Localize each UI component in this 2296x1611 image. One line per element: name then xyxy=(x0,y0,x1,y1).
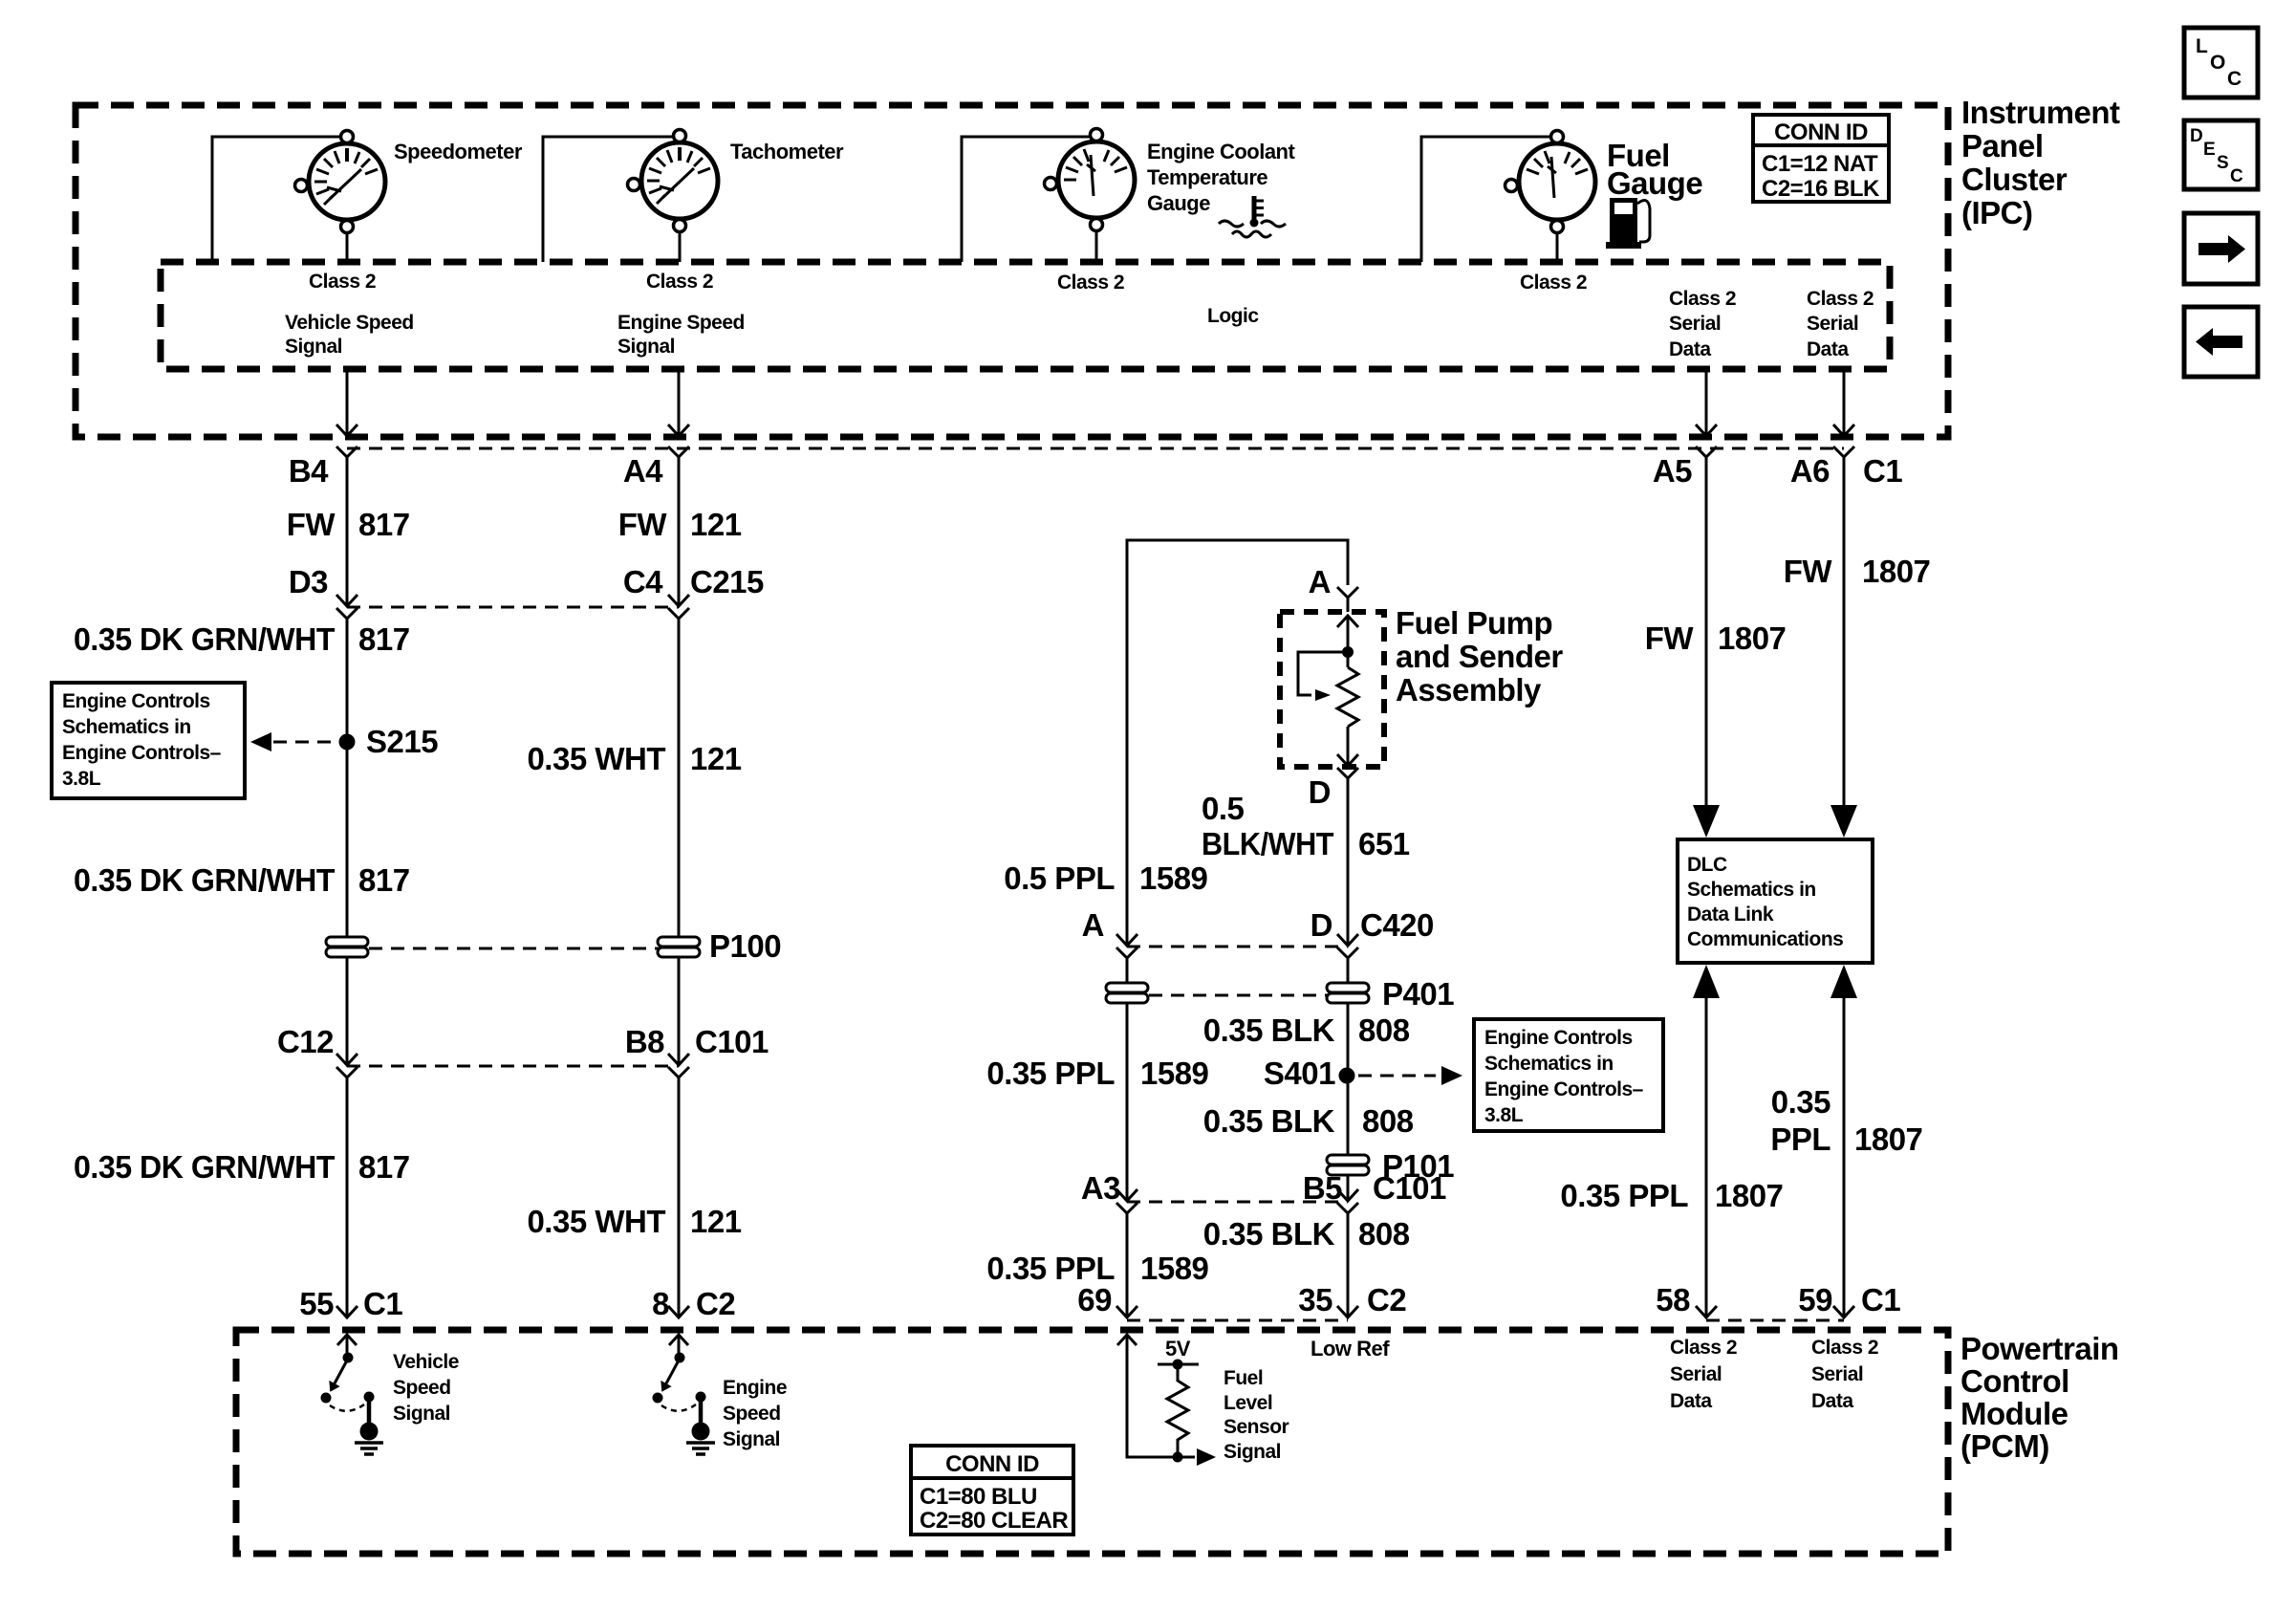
pin labels D C420 (W4) xyxy=(1310,907,1434,943)
arrow up inside PCM (pin 8) xyxy=(669,1335,688,1357)
svg-text:Engine Speed: Engine Speed xyxy=(617,312,745,334)
svg-text:A: A xyxy=(1309,564,1331,599)
svg-text:C2: C2 xyxy=(696,1286,735,1321)
arrow into C101 (W4) xyxy=(1337,1189,1358,1201)
nav icon DESC box xyxy=(2184,120,2258,189)
svg-text:8: 8 xyxy=(652,1286,669,1321)
svg-text:69: 69 xyxy=(1077,1282,1112,1317)
wire coolant gauge bottom stub xyxy=(1095,218,1098,262)
svg-text:and Sender: and Sender xyxy=(1396,639,1563,674)
inline connector P100 dashed link xyxy=(347,947,679,950)
svg-text:121: 121 xyxy=(690,507,742,542)
wire fuel gauge feed (top loop) xyxy=(1421,137,1557,262)
wire label FW 121 xyxy=(618,507,742,542)
connector pin Y (55 at PCM) xyxy=(336,1306,357,1317)
pin labels B8 C101 xyxy=(625,1024,769,1059)
pin labels A6 C1 xyxy=(1790,453,1903,489)
wire W1 segment C101 to PCM xyxy=(346,1078,349,1317)
ground (engine speed switch) xyxy=(686,1423,715,1455)
grommet P401 (W3) xyxy=(1106,983,1148,1003)
svg-text:121: 121 xyxy=(690,1204,742,1239)
grommet P101 (W4) xyxy=(1327,1155,1369,1175)
svg-text:D: D xyxy=(2190,126,2202,146)
svg-text:Vehicle Speed: Vehicle Speed xyxy=(285,312,414,334)
svg-text:Temperature: Temperature xyxy=(1147,165,1267,189)
connector pin Y (fuel sender D) xyxy=(1337,768,1358,778)
svg-text:C12: C12 xyxy=(277,1024,334,1059)
svg-text:0.35 DK GRN/WHT: 0.35 DK GRN/WHT xyxy=(74,621,335,657)
connector pin Y (A5) xyxy=(1696,446,1717,457)
connector C420 dashed line xyxy=(1127,946,1348,948)
arrow into C101 (W2) xyxy=(668,1054,689,1065)
svg-text:Communications: Communications xyxy=(1687,928,1843,950)
svg-text:0.35 BLK: 0.35 BLK xyxy=(1203,1103,1335,1139)
svg-text:Fuel: Fuel xyxy=(1224,1367,1263,1389)
arrow into C101 (W1) xyxy=(336,1054,357,1065)
connector pin Y (W3 at C101) xyxy=(1116,1203,1137,1213)
wire label 0.35 WHT 121 (2) xyxy=(527,1204,741,1239)
arrow into C420 (W3) xyxy=(1116,934,1137,946)
svg-text:817: 817 xyxy=(358,1149,410,1185)
Fuel Pump and Sender Assembly dashed box xyxy=(1280,612,1384,767)
net Engine Speed Signal (IPC) xyxy=(617,312,745,358)
connector pin Y (fuel sender A) xyxy=(1337,587,1358,598)
wire label 0.35 BLK 808 (3) xyxy=(1203,1216,1410,1252)
net Vehicle Speed Signal (PCM) xyxy=(393,1351,459,1425)
connector pin Y (W4 at C101) xyxy=(1337,1203,1358,1213)
svg-text:C: C xyxy=(2230,166,2243,186)
svg-text:FW: FW xyxy=(287,507,336,542)
net Class 2 Serial Data (IPC left) xyxy=(1669,288,1736,360)
svg-text:Class 2: Class 2 xyxy=(1670,1337,1737,1359)
svg-text:1589: 1589 xyxy=(1139,860,1208,896)
label Fuel Gauge xyxy=(1607,138,1702,201)
svg-text:Gauge: Gauge xyxy=(1147,191,1210,215)
inline connector P401 dashed link xyxy=(1127,994,1348,997)
arrow up from PCM into DLC (W5) xyxy=(1693,965,1720,998)
svg-text:Signal: Signal xyxy=(285,336,342,358)
svg-text:Signal: Signal xyxy=(1224,1441,1281,1463)
svg-text:C2=80 CLEAR: C2=80 CLEAR xyxy=(920,1508,1068,1534)
svg-text:0.35 BLK: 0.35 BLK xyxy=(1203,1216,1335,1252)
wire W5 segment A5 to DLC xyxy=(1705,457,1708,808)
svg-text:Class 2: Class 2 xyxy=(646,271,713,293)
svg-text:B4: B4 xyxy=(289,453,329,489)
svg-text:Level: Level xyxy=(1224,1392,1272,1414)
connector pin Y (W1 at C101) xyxy=(336,1067,357,1078)
net Fuel Level Sensor Signal xyxy=(1224,1367,1289,1463)
svg-text:Data: Data xyxy=(1807,338,1849,360)
wire stub into fuel sender box xyxy=(1347,598,1350,612)
svg-text:Class 2: Class 2 xyxy=(309,271,376,293)
grommet P401 (W4) xyxy=(1327,983,1369,1003)
connector C2 dashed line at PCM xyxy=(1127,1319,1348,1322)
resistor (PCM pull-up) xyxy=(1167,1364,1188,1457)
pin labels C4 C215 xyxy=(623,564,764,599)
connector pin Y (W3 at C420) xyxy=(1116,947,1137,958)
arrow up inside PCM (pin 69) xyxy=(1117,1335,1137,1345)
wire W2 segment C215 to C101 xyxy=(678,619,681,1063)
grommet P100 (W1) xyxy=(326,937,368,957)
wire label 0.35 DK GRN/WHT 817 (2) xyxy=(74,862,410,898)
svg-text:A5: A5 xyxy=(1653,453,1692,489)
arrow up from PCM into DLC (W6) xyxy=(1830,965,1857,998)
svg-text:Engine Controls–: Engine Controls– xyxy=(62,742,222,764)
svg-text:0.5: 0.5 xyxy=(1202,791,1245,826)
wire label 0.5 PPL 1589 xyxy=(1004,860,1207,896)
gauge Speedometer xyxy=(295,131,386,233)
net Vehicle Speed Signal (IPC) xyxy=(285,312,414,358)
svg-text:1589: 1589 xyxy=(1140,1251,1209,1286)
svg-text:5V: 5V xyxy=(1165,1337,1191,1361)
connector pin Y (W4 at C420) xyxy=(1337,947,1358,958)
svg-text:Assembly: Assembly xyxy=(1396,672,1542,708)
svg-text:Powertrain: Powertrain xyxy=(1960,1331,2119,1366)
svg-text:Data: Data xyxy=(1669,338,1711,360)
svg-text:C: C xyxy=(2227,68,2242,90)
junction dot (signal) xyxy=(1173,1452,1183,1463)
pin labels 8 C2 xyxy=(652,1286,735,1321)
svg-text:S215: S215 xyxy=(366,724,438,759)
PCM module name label xyxy=(1960,1331,2119,1464)
wire label 0.35 BLK 808 (1) xyxy=(1203,1012,1410,1048)
svg-text:Logic: Logic xyxy=(1207,305,1259,327)
svg-text:Engine: Engine xyxy=(723,1377,787,1399)
svg-text:817: 817 xyxy=(358,862,410,898)
wire W2 segment A4 to C215 xyxy=(678,457,681,605)
net Class 2 Serial Data (IPC right) xyxy=(1807,288,1874,360)
wire 5V feed inside PCM xyxy=(1127,1335,1195,1457)
svg-text:Panel: Panel xyxy=(1961,128,2044,163)
svg-text:Class 2: Class 2 xyxy=(1520,272,1587,294)
arrow into C420 (W4) xyxy=(1337,934,1358,946)
svg-text:Control: Control xyxy=(1960,1363,2069,1399)
svg-text:BLK/WHT: BLK/WHT xyxy=(1202,826,1333,861)
reference box DLC Schematics xyxy=(1678,839,1873,963)
svg-text:Engine Controls: Engine Controls xyxy=(62,690,210,712)
svg-text:0.35 PPL: 0.35 PPL xyxy=(986,1251,1115,1286)
svg-text:C1=12 NAT: C1=12 NAT xyxy=(1762,151,1878,177)
svg-text:D: D xyxy=(1309,774,1331,810)
splice S215 xyxy=(339,734,356,751)
wire sender internal bottom xyxy=(1347,727,1350,765)
svg-text:Module: Module xyxy=(1960,1396,2069,1431)
arrow into C215 (W1) xyxy=(336,595,357,606)
wire W1 segment B4 to C215 xyxy=(346,457,349,605)
wire W6 segment A6 to DLC xyxy=(1843,457,1846,808)
wire label 0.35 PPL 1807 (W5) xyxy=(1560,1178,1783,1213)
svg-text:Speed: Speed xyxy=(723,1403,781,1425)
svg-text:Engine Controls: Engine Controls xyxy=(1484,1027,1633,1049)
svg-text:C1: C1 xyxy=(1861,1282,1900,1317)
nav icon LOC box xyxy=(2184,28,2258,98)
gauge Engine Coolant Temperature xyxy=(1045,129,1136,231)
svg-text:B8: B8 xyxy=(625,1024,664,1059)
arrow into IPC edge (W2) xyxy=(668,425,689,436)
pin labels 55 C1 xyxy=(299,1286,402,1321)
svg-text:FW: FW xyxy=(618,507,668,542)
svg-text:0.35 WHT: 0.35 WHT xyxy=(527,1204,665,1239)
wire speedometer bottom stub xyxy=(346,220,349,262)
junction dot (sender) xyxy=(1342,646,1354,658)
junction dot (5V) xyxy=(1173,1360,1183,1370)
IPC module name label xyxy=(1961,95,2120,230)
wire W4 segment C101 to PCM xyxy=(1347,1213,1350,1317)
connector pin Y (W2 at C101) xyxy=(668,1067,689,1078)
wire label FW 1807 (W5) xyxy=(1645,620,1787,656)
connector pin Y (58 at PCM) xyxy=(1696,1306,1717,1317)
arrow into IPC edge (W5) xyxy=(1696,425,1717,436)
label Engine Coolant Temperature Gauge xyxy=(1147,140,1296,215)
svg-text:A: A xyxy=(1082,907,1104,943)
wire tachometer feed (top loop) xyxy=(543,137,680,262)
svg-text:Serial: Serial xyxy=(1669,313,1721,335)
connector pin Y (8 at PCM) xyxy=(668,1306,689,1317)
splice S401 xyxy=(1339,1068,1355,1084)
svg-text:C420: C420 xyxy=(1360,907,1434,943)
icon fuel pump xyxy=(1606,198,1650,249)
svg-text:C101: C101 xyxy=(695,1024,769,1059)
IPC inner logic dashed box xyxy=(161,262,1890,369)
reference box Engine Controls Schematics (left) xyxy=(52,683,245,798)
switch vehicle speed signal xyxy=(321,1353,375,1426)
svg-text:1807: 1807 xyxy=(1718,620,1786,656)
wire label 0.35 PPL 1589 (1) xyxy=(986,1056,1208,1091)
wire W3 segment C420 to C101 xyxy=(1126,958,1129,1199)
connector pin Y (W2 at C215) xyxy=(668,608,689,619)
svg-text:Engine Controls–: Engine Controls– xyxy=(1484,1078,1644,1100)
svg-text:(PCM): (PCM) xyxy=(1960,1428,2049,1464)
svg-text:Engine Coolant: Engine Coolant xyxy=(1147,140,1296,163)
svg-text:A4: A4 xyxy=(623,453,663,489)
label Fuel Pump and Sender Assembly xyxy=(1396,605,1563,708)
svg-text:D3: D3 xyxy=(289,564,328,599)
dashed reference arrow to S215 xyxy=(250,732,335,751)
arrow into IPC edge (W1) xyxy=(336,425,357,436)
svg-text:808: 808 xyxy=(1358,1012,1410,1048)
svg-text:C1: C1 xyxy=(363,1286,402,1321)
svg-text:Serial: Serial xyxy=(1670,1363,1722,1385)
net Class 2 Serial Data (PCM pin 58) xyxy=(1670,1337,1737,1412)
connector pin Y (A4) xyxy=(668,446,689,457)
svg-text:651: 651 xyxy=(1358,826,1410,861)
arrow up inside sender box xyxy=(1337,616,1358,627)
svg-text:P401: P401 xyxy=(1382,976,1454,1012)
grommet P100 (W2) xyxy=(658,937,700,957)
svg-text:P100: P100 xyxy=(709,928,781,964)
svg-text:1807: 1807 xyxy=(1862,554,1930,589)
svg-text:0.35 BLK: 0.35 BLK xyxy=(1203,1012,1335,1048)
arrow into DLC box (W6) xyxy=(1830,805,1857,838)
dashed reference arrow from S401 xyxy=(1358,1066,1462,1085)
svg-text:0.35 DK GRN/WHT: 0.35 DK GRN/WHT xyxy=(74,1149,335,1185)
wire label FW 1807 (W6) xyxy=(1784,554,1931,589)
svg-text:0.35 WHT: 0.35 WHT xyxy=(527,741,665,776)
arrow into C215 (W2) xyxy=(668,595,689,606)
svg-text:Instrument: Instrument xyxy=(1961,95,2120,130)
svg-text:Class 2: Class 2 xyxy=(1807,288,1874,310)
ground (vehicle speed switch) xyxy=(355,1423,383,1455)
net Engine Speed Signal (PCM) xyxy=(723,1377,787,1450)
svg-text:Data Link: Data Link xyxy=(1687,903,1774,925)
svg-text:B5: B5 xyxy=(1303,1170,1342,1206)
svg-text:35: 35 xyxy=(1298,1282,1332,1317)
connector C101 dashed line (left) xyxy=(347,1065,679,1068)
CONN ID table (PCM) xyxy=(911,1446,1073,1535)
svg-text:0.35 PPL: 0.35 PPL xyxy=(1560,1178,1688,1213)
svg-text:CONN ID: CONN ID xyxy=(945,1451,1039,1477)
svg-text:817: 817 xyxy=(358,621,410,657)
connector pin Y (A6) xyxy=(1833,446,1854,457)
CONN ID table (IPC) xyxy=(1753,115,1889,202)
svg-text:E: E xyxy=(2203,140,2215,160)
svg-text:Serial: Serial xyxy=(1807,313,1858,335)
svg-text:CONN ID: CONN ID xyxy=(1774,120,1868,145)
svg-text:C2=16 BLK: C2=16 BLK xyxy=(1762,176,1880,202)
svg-text:C4: C4 xyxy=(623,564,663,599)
svg-text:C2: C2 xyxy=(1367,1282,1406,1317)
svg-text:FW: FW xyxy=(1784,554,1833,589)
wire W3 segment C101 to PCM xyxy=(1126,1213,1129,1317)
svg-text:Vehicle: Vehicle xyxy=(393,1351,459,1373)
wire W6 segment DLC to PCM xyxy=(1843,994,1846,1317)
wire W1 segment C215 to C101 xyxy=(346,619,349,1063)
nav icon left arrow box xyxy=(2184,307,2258,377)
connector pin Y (35 at PCM) xyxy=(1337,1306,1358,1317)
arrow into C101 (W3) xyxy=(1116,1189,1137,1201)
gauge Fuel xyxy=(1505,131,1596,233)
svg-text:Signal: Signal xyxy=(723,1428,780,1450)
pin labels 35 C2 xyxy=(1298,1282,1406,1317)
wire label 0.5 BLK/WHT 651 xyxy=(1202,791,1410,861)
svg-text:Schematics in: Schematics in xyxy=(62,716,191,738)
svg-text:Schematics in: Schematics in xyxy=(1687,879,1816,901)
svg-text:3.8L: 3.8L xyxy=(1484,1104,1524,1126)
pin labels B5 C101 (W4) xyxy=(1303,1170,1446,1206)
wire W5 class 2 serial data IPC exit xyxy=(1705,369,1708,436)
svg-text:Tachometer: Tachometer xyxy=(730,140,844,163)
svg-text:Gauge: Gauge xyxy=(1607,165,1702,201)
connector C1 dashed line at PCM xyxy=(1706,1319,1844,1322)
svg-text:55: 55 xyxy=(299,1286,334,1321)
IPC harness connector dashed line (C1/C2 row) xyxy=(347,447,1844,450)
svg-text:C101: C101 xyxy=(1373,1170,1446,1206)
svg-text:0.35: 0.35 xyxy=(1771,1084,1830,1120)
connector pin Y (59 at PCM) xyxy=(1833,1306,1854,1317)
svg-text:C1=80 BLU: C1=80 BLU xyxy=(920,1484,1037,1510)
wire W4 segment sender to C420 xyxy=(1347,778,1350,945)
svg-text:(IPC): (IPC) xyxy=(1961,195,2033,230)
wire tachometer bottom stub xyxy=(679,219,682,262)
connector C101 dashed line (middle) xyxy=(1127,1201,1348,1204)
svg-text:A3: A3 xyxy=(1081,1170,1120,1206)
svg-text:808: 808 xyxy=(1362,1103,1414,1139)
svg-text:121: 121 xyxy=(690,741,742,776)
wire W6 class 2 serial data IPC exit xyxy=(1843,369,1846,436)
svg-text:1589: 1589 xyxy=(1140,1056,1209,1091)
connector pin Y (69 at PCM) xyxy=(1116,1306,1137,1317)
5V supply bar xyxy=(1158,1363,1199,1366)
svg-text:Cluster: Cluster xyxy=(1961,162,2068,197)
svg-text:Signal: Signal xyxy=(617,336,675,358)
svg-text:Speed: Speed xyxy=(393,1377,451,1399)
svg-text:S401: S401 xyxy=(1264,1056,1335,1091)
wire W2 engine speed signal IPC exit xyxy=(678,369,681,436)
wire W3 top jog (PPL feed to fuel sender) xyxy=(1127,540,1348,945)
wire W4 segment C420 to C101 xyxy=(1347,958,1350,1199)
svg-text:Sensor: Sensor xyxy=(1224,1416,1289,1438)
svg-text:PPL: PPL xyxy=(1770,1121,1830,1157)
wire label 0.35 DK GRN/WHT 817 (1) xyxy=(74,621,410,657)
wire label 0.35 PPL 1807 (W6 two-line) xyxy=(1770,1084,1922,1157)
wire speedometer feed (top loop) xyxy=(212,137,347,262)
wire W2 segment C101 to PCM xyxy=(678,1078,681,1317)
wire sender internal vertical xyxy=(1347,616,1350,667)
svg-text:C1: C1 xyxy=(1863,453,1902,489)
svg-text:Class 2: Class 2 xyxy=(1669,288,1736,310)
svg-text:59: 59 xyxy=(1798,1282,1832,1317)
connector C215 dashed line xyxy=(347,606,679,609)
svg-text:Fuel Pump: Fuel Pump xyxy=(1396,605,1552,641)
net Class 2 Serial Data (PCM pin 59) xyxy=(1811,1337,1878,1412)
wire label 0.35 PPL 1589 (2) xyxy=(986,1251,1208,1286)
svg-text:0.5 PPL: 0.5 PPL xyxy=(1004,860,1115,896)
wire label 0.35 WHT 121 (1) xyxy=(527,741,741,776)
svg-text:Data: Data xyxy=(1670,1390,1712,1412)
svg-text:Serial: Serial xyxy=(1811,1363,1863,1385)
svg-text:Low Ref: Low Ref xyxy=(1310,1337,1390,1361)
connector pin Y (B4) xyxy=(336,446,357,457)
arrow into DLC box (W5) xyxy=(1693,805,1720,838)
switch engine speed signal xyxy=(653,1353,706,1426)
arrow fuel level sensor signal xyxy=(1197,1448,1216,1466)
wire W1 vehicle speed signal IPC exit xyxy=(346,369,349,436)
reference box Engine Controls Schematics (right) xyxy=(1474,1019,1663,1131)
svg-text:A6: A6 xyxy=(1790,453,1830,489)
svg-text:0.35 DK GRN/WHT: 0.35 DK GRN/WHT xyxy=(74,862,335,898)
pin labels 59 C1 xyxy=(1798,1282,1900,1317)
svg-text:0.35 PPL: 0.35 PPL xyxy=(986,1056,1115,1091)
arrow down to sender box edge xyxy=(1337,754,1358,766)
connector pin Y (W1 at C215) xyxy=(336,608,357,619)
Powertrain Control Module (PCM) dashed box xyxy=(236,1330,1948,1554)
svg-text:1807: 1807 xyxy=(1854,1121,1922,1157)
svg-text:FW: FW xyxy=(1645,620,1695,656)
arrow into IPC edge (W6) xyxy=(1833,425,1854,436)
resistor (fuel level sender) xyxy=(1337,667,1358,727)
Instrument Panel Cluster (IPC) outer dashed box xyxy=(76,105,1948,437)
svg-text:1807: 1807 xyxy=(1715,1178,1783,1213)
svg-text:L: L xyxy=(2196,35,2208,57)
svg-text:817: 817 xyxy=(358,507,410,542)
wire label 0.35 BLK 808 (2) xyxy=(1203,1103,1414,1139)
arrow up inside PCM (pin 55) xyxy=(337,1335,357,1357)
svg-text:58: 58 xyxy=(1656,1282,1690,1317)
wire label 0.35 DK GRN/WHT 817 (3) xyxy=(74,1149,410,1185)
wire W5 segment DLC to PCM xyxy=(1705,994,1708,1317)
svg-text:Class 2: Class 2 xyxy=(1811,1337,1878,1359)
svg-text:D: D xyxy=(1310,907,1332,943)
svg-text:C215: C215 xyxy=(690,564,764,599)
nav icon right arrow box xyxy=(2184,213,2258,284)
wire fuel gauge bottom stub xyxy=(1556,220,1559,262)
gauge Tachometer xyxy=(628,130,719,232)
svg-text:Speedometer: Speedometer xyxy=(394,140,523,163)
wire label FW 817 xyxy=(287,507,410,542)
wiper arm (sender variable resistor) xyxy=(1298,652,1348,701)
svg-text:808: 808 xyxy=(1358,1216,1410,1252)
svg-text:3.8L: 3.8L xyxy=(62,768,101,790)
